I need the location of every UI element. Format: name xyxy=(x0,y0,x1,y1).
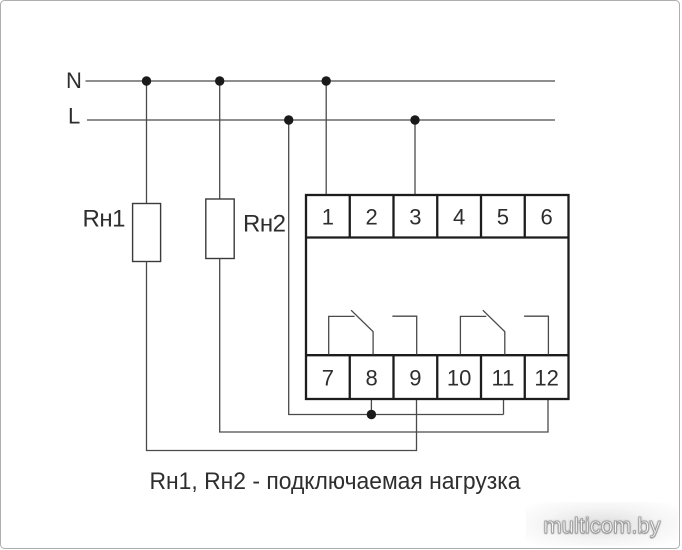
wire L down branch xyxy=(289,120,504,415)
junction N / Rн1 xyxy=(142,76,151,85)
wire L to pin 3 xyxy=(414,120,416,195)
contact K2 fixed lead pin 12 xyxy=(524,316,548,354)
svg-text:8: 8 xyxy=(365,366,377,391)
svg-text:6: 6 xyxy=(540,205,552,230)
svg-text:5: 5 xyxy=(497,205,509,230)
contact K2 fixed lead pin 10 xyxy=(460,316,486,354)
junction N / pin 1 xyxy=(322,76,331,85)
wire N to Rн1 xyxy=(146,81,148,204)
svg-text:N: N xyxy=(66,68,82,93)
wire N to pin 1 xyxy=(325,81,327,195)
svg-text:Rн1, Rн2 - подключаемая нагруз: Rн1, Rн2 - подключаемая нагрузка xyxy=(150,468,522,495)
svg-text:L: L xyxy=(68,104,80,129)
contact K2 blade pin 11 xyxy=(483,310,505,354)
junction N / Rн2 xyxy=(215,76,224,85)
junction L / pin 3 xyxy=(410,115,419,124)
resistor Rн2 (load) xyxy=(206,199,234,259)
svg-text:11: 11 xyxy=(491,366,514,391)
svg-text:1: 1 xyxy=(322,205,334,230)
wire L bus xyxy=(87,119,555,121)
terminal row bottom separator xyxy=(306,354,569,356)
top terminal dividers xyxy=(350,195,525,238)
wire pin 11 stub xyxy=(503,399,505,415)
svg-text:12: 12 xyxy=(534,366,558,391)
wire Rн2 to pin 12 xyxy=(220,259,548,433)
relay module body xyxy=(306,195,569,399)
svg-text:Rн2: Rн2 xyxy=(243,211,286,238)
wire Rн1 to pin 9 xyxy=(147,262,417,451)
junction L / down branch xyxy=(284,115,293,124)
wire N bus xyxy=(86,80,556,82)
svg-text:3: 3 xyxy=(409,205,421,230)
contact K1 fixed lead pin 7 xyxy=(329,316,355,354)
contact K1 blade pin 8 xyxy=(351,310,373,354)
wire N to Rн2 xyxy=(219,81,221,200)
wire pin 8 stub xyxy=(370,399,372,415)
contact K1 fixed lead pin 9 xyxy=(392,316,416,354)
bottom terminal dividers xyxy=(350,355,525,399)
svg-text:2: 2 xyxy=(365,205,377,230)
svg-text:4: 4 xyxy=(453,205,465,230)
svg-text:Rн1: Rн1 xyxy=(83,206,126,233)
svg-text:9: 9 xyxy=(409,366,421,391)
svg-text:10: 10 xyxy=(447,366,471,391)
svg-text:7: 7 xyxy=(322,366,334,391)
watermark multicom.by xyxy=(526,502,678,546)
resistor Rн1 (load) xyxy=(133,204,161,262)
junction pin 8 / L branch xyxy=(367,410,376,419)
terminal row top separator xyxy=(306,236,569,238)
